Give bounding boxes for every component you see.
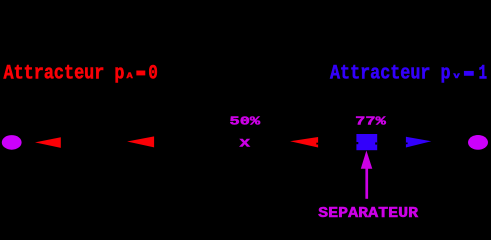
arrowhead blue <box>406 137 431 148</box>
separator square <box>356 134 377 150</box>
axis notch on red arrowhead 3 <box>316 143 318 145</box>
svg-text:Attracteur p: Attracteur p <box>330 62 451 85</box>
arrowhead red 1 <box>35 137 61 148</box>
svg-text:Attracteur p: Attracteur p <box>4 62 125 85</box>
svg-text:x: x <box>239 135 251 151</box>
label Attracteur pV=1 <box>330 62 487 85</box>
separator arrow shaft <box>365 168 368 199</box>
separator arrow head <box>361 151 373 169</box>
arrowhead red 3 <box>290 137 318 148</box>
svg-text:1: 1 <box>479 63 488 86</box>
label Attracteur pA=0 <box>4 62 158 85</box>
svg-text:50%: 50% <box>230 114 261 128</box>
svg-text:SEPARATEUR: SEPARATEUR <box>318 205 418 218</box>
axis notch left of square <box>356 142 358 144</box>
svg-text:v: v <box>453 71 459 81</box>
svg-text:A: A <box>127 71 134 81</box>
axis notch on blue arrowhead <box>406 143 408 145</box>
svg-text:0: 0 <box>148 62 158 85</box>
axis notch right of square <box>375 142 377 144</box>
svg-text:77%: 77% <box>355 114 386 128</box>
attractor ellipse right <box>468 135 488 150</box>
attractor ellipse left <box>2 135 22 150</box>
arrowhead red 2 <box>127 136 154 147</box>
